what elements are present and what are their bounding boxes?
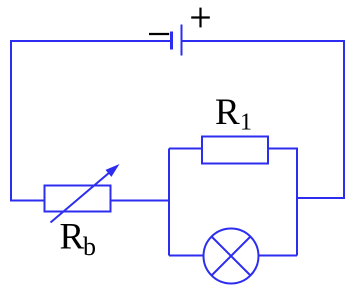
svg-text:R: R [60,217,85,258]
svg-text:b: b [83,232,96,261]
svg-text:R: R [215,92,240,133]
svg-text:1: 1 [240,110,252,136]
